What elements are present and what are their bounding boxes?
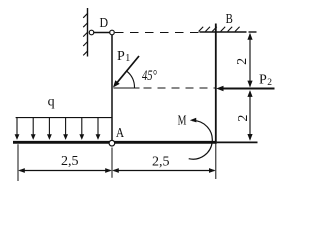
extension line middle below A (111, 148, 113, 178)
load arrow 1 (15, 118, 20, 140)
load arrow 6 (96, 118, 101, 140)
dimension 2 lower right (247, 90, 252, 141)
dash extension right of support (249, 31, 257, 33)
wall support left (83, 8, 88, 57)
svg-text:B: B (226, 12, 233, 27)
force P2 arrow (216, 86, 274, 92)
extension line left (17, 144, 19, 181)
load arrow 4 (63, 118, 68, 140)
svg-text:2: 2 (236, 115, 251, 122)
svg-text:q: q (48, 94, 55, 109)
load arrow 2 (31, 118, 36, 140)
moment M arc (189, 118, 213, 159)
svg-text:D: D (100, 16, 109, 31)
dimension 2,5 right (112, 168, 215, 173)
svg-text:1: 1 (125, 53, 130, 64)
load arrow 3 (47, 118, 52, 140)
svg-text:2: 2 (267, 78, 272, 88)
label P2 (259, 73, 272, 88)
pin A (109, 140, 115, 146)
label P1 (117, 49, 130, 64)
distributed load q top line (16, 117, 112, 119)
load arrow 5 (79, 118, 84, 140)
link rod wall to D (94, 32, 110, 34)
force P1 arrow (113, 56, 139, 88)
right column member (215, 24, 217, 144)
svg-text:P: P (117, 49, 125, 64)
svg-text:P: P (259, 73, 267, 88)
extension line right (215, 144, 217, 180)
support hatched top right B (199, 27, 247, 32)
dashed reference line at P1 level (114, 87, 216, 89)
beam horizontal member (13, 141, 217, 144)
pin D (110, 30, 115, 35)
svg-text:45°: 45° (142, 68, 157, 84)
svg-text:M: M (178, 113, 187, 128)
beam reference extension right of column (217, 141, 258, 143)
svg-text:A: A (116, 126, 125, 141)
svg-text:2,5: 2,5 (152, 155, 170, 170)
svg-text:2: 2 (235, 58, 250, 65)
dimension 2 upper right (247, 33, 252, 88)
dashed line D to B (115, 32, 199, 34)
svg-text:2,5: 2,5 (61, 154, 79, 169)
45 degree arc (126, 71, 134, 88)
dimension 2,5 left (18, 168, 112, 173)
left column member (111, 35, 113, 141)
pin at wall (89, 30, 94, 35)
